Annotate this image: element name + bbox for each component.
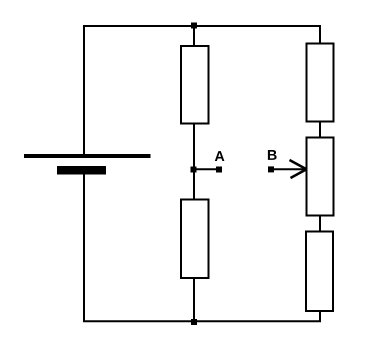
- resistor R2 (middle lower): [181, 200, 209, 279]
- wiper arrow shaft from node B to VR1: [272, 168, 305, 170]
- wire: right vertical, top corner to resistor R3: [319, 25, 321, 44]
- wire: left vertical, top corner to battery top plate: [83, 25, 85, 156]
- junction: middle branch / bottom bus: [191, 319, 197, 325]
- wire: VR1 to resistor R4: [319, 215, 321, 232]
- wire: bottom horizontal bus: [83, 320, 321, 322]
- wire: R1 bottom to node A: [193, 123, 195, 168]
- wire: R4 bottom to bottom bus corner: [319, 310, 321, 322]
- wire: R3 to potentiometer VR1: [319, 121, 321, 138]
- wire: node A to resistor R2: [193, 171, 195, 200]
- label A: [215, 151, 225, 161]
- node B terminal square: [268, 166, 274, 172]
- wiper arrow upper barb: [290, 160, 307, 169]
- junction: middle branch / top bus: [191, 23, 197, 29]
- wire: top horizontal bus: [83, 25, 321, 27]
- node A junction square on wire: [191, 167, 197, 173]
- potentiometer VR1 body: [307, 138, 334, 216]
- node A terminal square: [216, 167, 222, 173]
- resistor R1 (middle upper): [181, 46, 209, 124]
- resistor R3 (right upper): [307, 44, 334, 122]
- wiper arrow lower barb: [291, 170, 307, 179]
- label B: [268, 150, 277, 160]
- wire: node A horizontal stub: [196, 168, 217, 170]
- wire: left vertical, battery bottom plate to bottom corner: [83, 170, 85, 322]
- wire: top bus to resistor R1: [193, 26, 195, 46]
- resistor R4 (right lower): [306, 232, 333, 312]
- battery B1 bottom plate (short thick): [57, 166, 106, 175]
- wire: R2 bottom to bottom bus: [193, 277, 195, 321]
- battery B1 top plate (long thin): [24, 154, 151, 158]
